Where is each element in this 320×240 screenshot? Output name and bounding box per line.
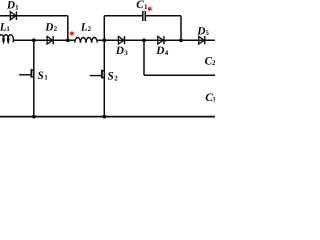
wire C2 branch vertical [143, 40, 145, 75]
switch S2 [90, 70, 105, 79]
inductor L1 [0, 35, 13, 43]
svg-text:1: 1 [6, 25, 10, 33]
svg-text:2: 2 [114, 74, 118, 82]
diode D4 [158, 36, 164, 44]
svg-text:2: 2 [88, 25, 92, 33]
svg-text:D: D [115, 45, 124, 57]
svg-text:2: 2 [212, 59, 215, 67]
node B junction dot [66, 38, 70, 42]
wire top-left horizontal [0, 15, 68, 17]
svg-text:4: 4 [165, 49, 169, 57]
wire top-right horizontal right of C1 [146, 15, 181, 17]
polarity mark red asterisk at L2 [70, 31, 74, 35]
svg-text:1: 1 [15, 3, 19, 11]
node D junction dot (C1 branch) [179, 38, 183, 42]
wire main rail segment between L1 and L2 [13, 39, 76, 41]
diode D2 [47, 36, 53, 44]
wire vertical from C1 wire down to rail node D [180, 16, 182, 41]
svg-text:1: 1 [144, 3, 148, 11]
svg-text:D: D [196, 25, 205, 37]
svg-text:L: L [80, 22, 88, 34]
svg-text:5: 5 [205, 29, 209, 37]
polarity mark red asterisk at C1 [148, 7, 152, 11]
svg-text:D: D [6, 0, 15, 12]
capacitor C1 [143, 11, 146, 21]
node A junction dot (rail / S1) [32, 38, 36, 42]
inductor L2 [75, 37, 97, 42]
svg-text:S: S [38, 70, 44, 82]
svg-text:S: S [108, 71, 114, 83]
diode D1 [10, 11, 16, 20]
svg-text:1: 1 [44, 74, 48, 82]
switch S1 [19, 69, 35, 78]
svg-text:3: 3 [212, 96, 215, 104]
wire top-right horizontal left of C1 [104, 15, 142, 17]
node C junction dot (rail / S2 / top wire) [102, 38, 106, 42]
wire main rail segment right of L2 [97, 39, 215, 41]
wire bottom rail [0, 116, 215, 118]
wire C2 branch horizontal [144, 74, 215, 76]
svg-text:D: D [155, 45, 164, 57]
wire vertical from top wire down to rail node B [67, 16, 69, 41]
svg-text:3: 3 [124, 49, 128, 57]
svg-text:D: D [44, 22, 53, 34]
wire S1 branch vertical [33, 40, 35, 116]
junction dot bottom rail at S1 [32, 115, 36, 119]
junction dot at D4 cathode [164, 39, 166, 41]
svg-text:2: 2 [54, 25, 58, 33]
diode D3 [118, 36, 124, 44]
junction dot bottom rail at S2 [102, 115, 106, 119]
node E junction dot (C2 branch) [142, 38, 146, 42]
wire S2 branch vertical (also connects top-right wire) [103, 16, 105, 117]
diode D5 [199, 36, 205, 44]
